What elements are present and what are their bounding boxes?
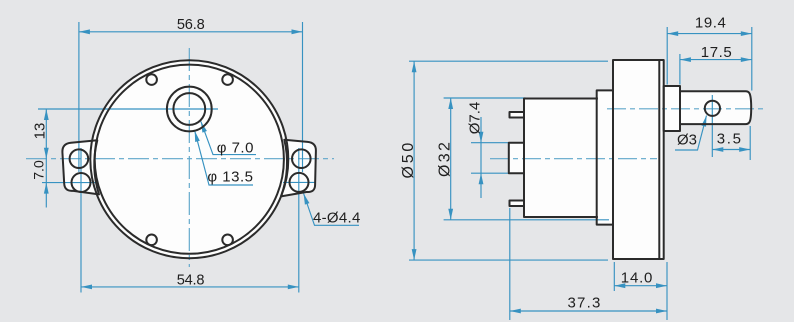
svg-text:56.8: 56.8 [177,17,205,33]
svg-text:17.5: 17.5 [701,44,733,61]
svg-text:7.0: 7.0 [31,160,47,180]
svg-text:4-Ø4.4: 4-Ø4.4 [313,210,361,227]
svg-text:Ø3: Ø3 [677,132,697,149]
svg-text:Ø7.4: Ø7.4 [467,102,484,135]
svg-text:Ø32: Ø32 [437,140,454,177]
svg-text:14.0: 14.0 [621,269,653,286]
svg-text:φ 13.5: φ 13.5 [207,168,253,185]
svg-text:Ø50: Ø50 [400,140,417,179]
svg-text:19.4: 19.4 [695,14,727,31]
svg-text:φ 7.0: φ 7.0 [217,139,254,156]
svg-text:37.3: 37.3 [568,295,602,312]
svg-text:13: 13 [32,123,49,140]
svg-text:3.5: 3.5 [717,131,743,148]
svg-text:54.8: 54.8 [177,272,205,288]
